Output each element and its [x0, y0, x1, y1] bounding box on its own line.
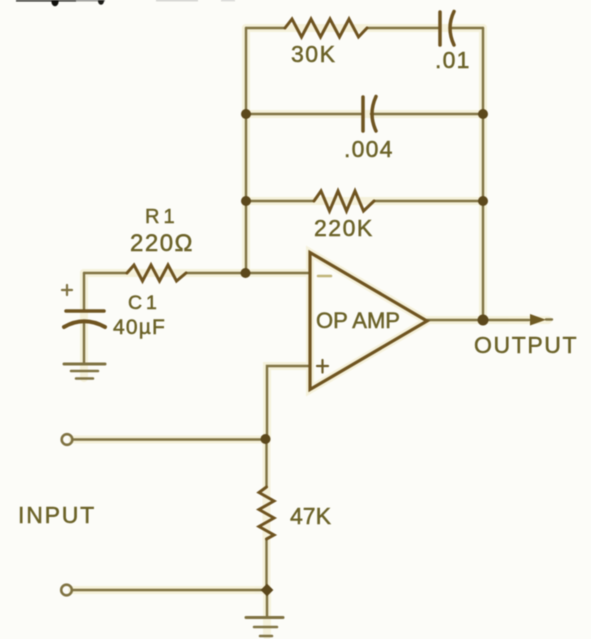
svg-text:INPUT: INPUT: [18, 502, 96, 528]
svg-text:220Ω: 220Ω: [130, 230, 194, 257]
svg-text:47K: 47K: [290, 503, 332, 529]
svg-text:.004: .004: [344, 136, 394, 162]
svg-text:30K: 30K: [291, 41, 336, 67]
svg-text:40µF: 40µF: [113, 316, 166, 339]
svg-text:OP AMP: OP AMP: [316, 308, 400, 333]
svg-text:.01: .01: [435, 47, 471, 73]
svg-text:OUTPUT: OUTPUT: [474, 332, 578, 358]
svg-text:220K: 220K: [314, 215, 374, 241]
svg-text:R 1: R 1: [145, 206, 175, 228]
svg-text:C 1: C 1: [128, 292, 157, 314]
